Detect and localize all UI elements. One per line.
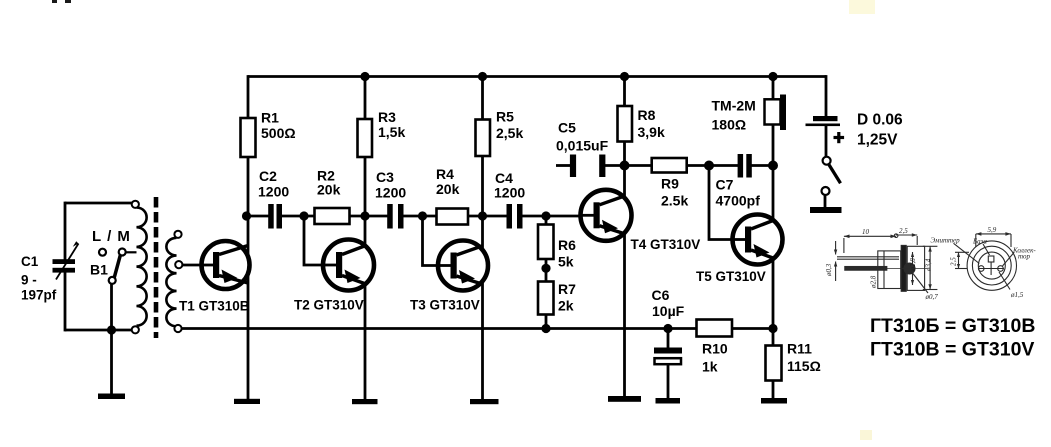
earphone TM-2M — [765, 95, 787, 131]
svg-text:5,9: 5,9 — [988, 226, 997, 234]
pinout leader line to d0,7 — [911, 271, 928, 293]
wire tank left upper — [64, 202, 67, 260]
svg-text:2,5: 2,5 — [950, 257, 958, 266]
svg-text:Эмиттер: Эмиттер — [931, 237, 961, 245]
pinout dim 10 line — [844, 235, 896, 239]
pinout side view center pin circle — [904, 263, 915, 274]
wire T3 base bend — [423, 216, 452, 266]
wire T1 base — [183, 264, 214, 267]
svg-text:R11: R11 — [787, 341, 812, 357]
transformer secondary winding — [166, 238, 176, 327]
wire C5 left stub — [556, 164, 571, 167]
capacitor C7 — [738, 154, 752, 178]
node dot C6 bus — [663, 324, 672, 333]
transformer core — [154, 197, 159, 338]
node dot switch bus — [107, 325, 116, 334]
stray mark top-left 1 — [52, 0, 57, 3]
svg-text:115Ω: 115Ω — [787, 358, 821, 374]
transistor T2 — [323, 240, 374, 291]
transformer primary top terminal — [132, 201, 139, 208]
svg-text:R9: R9 — [661, 176, 679, 192]
svg-text:ø3,4: ø3,4 — [925, 258, 933, 272]
transformer primary tap terminal — [119, 249, 126, 256]
pinout side view axis line — [886, 268, 927, 270]
svg-text:180Ω: 180Ω — [712, 117, 747, 133]
wire tank left lower — [64, 272, 67, 331]
pinout side view thin lead — [837, 257, 899, 259]
pinout front view pin cross lines — [978, 262, 1004, 275]
pinout front view base key square — [988, 256, 994, 262]
wire VL1 to C2 — [248, 215, 269, 218]
pinout side view body inner line — [883, 251, 885, 289]
node dot C2 right / T2 base — [299, 211, 308, 220]
svg-text:1200: 1200 — [258, 184, 289, 200]
svg-text:R6: R6 — [558, 237, 576, 253]
node dot R2-R3 — [360, 211, 369, 220]
transformer secondary bottom terminal — [174, 325, 181, 332]
transistor T3 — [438, 241, 488, 291]
resistor R3 — [358, 119, 373, 157]
resistor R11 — [766, 346, 782, 381]
ground C6 — [656, 398, 681, 404]
pinout dim 2,5 line — [894, 233, 917, 237]
resistor R2 — [315, 208, 350, 224]
node dot C4 right / R6 top — [541, 211, 550, 220]
ground power switch — [810, 207, 842, 213]
wire stage line VL2 (R3/T2 column) — [364, 77, 367, 400]
svg-text:L / M: L / M — [92, 228, 130, 245]
node dot R7 bottom bus — [541, 324, 550, 333]
pinout front view outer circle — [967, 241, 1016, 290]
svg-text:T5 GT310V: T5 GT310V — [696, 269, 766, 284]
node dot R6-R7 — [541, 264, 550, 273]
svg-text:C1: C1 — [21, 254, 39, 269]
switch B1 pivot contact — [109, 277, 116, 284]
svg-text:T4 GT310V: T4 GT310V — [631, 237, 701, 252]
ground T1 — [234, 399, 260, 404]
svg-text:1200: 1200 — [494, 185, 525, 201]
transformer primary bottom terminal — [132, 326, 139, 333]
node dot rail-R8 — [620, 72, 629, 81]
pinout dim d2,8 inner line — [911, 252, 914, 285]
svg-text:4700pf: 4700pf — [716, 193, 761, 209]
wire emitter bus y=328.5 — [182, 327, 774, 330]
transistor T4 — [580, 190, 632, 241]
node dot rail-R3 — [360, 72, 369, 81]
svg-text:C3: C3 — [376, 169, 394, 185]
svg-text:T1 GT310B: T1 GT310B — [179, 299, 250, 314]
wire C5 to R9 — [605, 164, 652, 167]
svg-text:2k: 2k — [558, 298, 574, 314]
wire primary tap stub — [126, 251, 137, 253]
pinout side view body cylinder — [878, 251, 901, 289]
ground T3 — [470, 399, 499, 404]
capacitor C4 — [507, 204, 523, 229]
svg-text:T2 GT310V: T2 GT310V — [294, 298, 364, 313]
wire top supply rail — [248, 75, 826, 78]
resistor R5 — [476, 120, 491, 157]
wire tank loop top — [65, 202, 132, 205]
node dot C7 right — [768, 161, 778, 171]
capacitor C3 — [387, 204, 403, 229]
svg-text:500Ω: 500Ω — [261, 125, 296, 141]
svg-text:ø1,5: ø1,5 — [1010, 291, 1024, 299]
pinout front view emitter pin — [978, 266, 984, 272]
pinout dim d3,4 line — [923, 246, 938, 289]
resistor R10 — [697, 320, 733, 337]
svg-text:ø0,7: ø0,7 — [925, 293, 939, 301]
svg-text:R10: R10 — [702, 341, 728, 357]
pinout dim 5,9 line — [976, 232, 1011, 247]
pinout leader d1,5 — [999, 272, 1010, 290]
ground T2 — [352, 399, 378, 404]
switch B1 lever — [114, 255, 120, 278]
svg-text:20k: 20k — [317, 182, 341, 198]
svg-text:D 0.06: D 0.06 — [857, 112, 903, 129]
wire C2 to R2 — [282, 215, 315, 218]
wire R2 to C3 — [350, 215, 388, 218]
svg-text:R5: R5 — [496, 109, 514, 125]
resistor R7 — [538, 282, 554, 315]
wire T5 base bend — [709, 166, 732, 240]
wire tank bottom — [65, 329, 132, 332]
node dot bus right / R11 top — [768, 324, 777, 333]
switch B1 open contact L — [99, 249, 106, 256]
svg-text:T3 GT310V: T3 GT310V — [410, 298, 480, 313]
pinout side view thick lead — [845, 267, 887, 271]
pinout leader emitter — [954, 243, 980, 263]
power switch lever — [829, 165, 841, 184]
ground tank — [98, 394, 125, 400]
wire stage line VL5 (TM/T5/R11 column) — [772, 77, 775, 399]
resistor R6 — [538, 225, 554, 260]
wire switch B1 to bus — [110, 284, 113, 394]
node dot C5/R8/R9 — [620, 161, 630, 171]
capacitor C5 — [570, 155, 606, 178]
svg-text:5k: 5k — [558, 254, 574, 270]
resistor R8 — [618, 106, 633, 142]
svg-text:R4: R4 — [436, 166, 454, 182]
stray mark top-left 2 — [65, 0, 71, 3]
wire R6 R7 column — [545, 216, 548, 329]
svg-text:ГТ310Б = GT310B: ГТ310Б = GT310B — [870, 315, 1035, 337]
wire C3 to R4 — [403, 215, 437, 218]
pinout front view middle circle — [972, 246, 1011, 285]
svg-text:ГТ310В = GT310V: ГТ310В = GT310V — [870, 339, 1034, 361]
transistor T5 — [732, 215, 783, 265]
svg-text:3,9k: 3,9k — [638, 124, 665, 140]
svg-text:2,5k: 2,5k — [496, 125, 523, 141]
svg-text:B1: B1 — [90, 262, 108, 278]
svg-text:2,5: 2,5 — [899, 227, 908, 235]
svg-text:тор: тор — [1018, 253, 1031, 261]
wire C4 to T4 base — [522, 215, 594, 218]
wire R4 to C4 — [468, 215, 507, 218]
pinout dim extension lines — [844, 236, 917, 253]
svg-text:C5: C5 — [558, 120, 576, 136]
label battery plus — [834, 132, 845, 143]
svg-text:1,5k: 1,5k — [378, 124, 405, 140]
svg-text:10µF: 10µF — [652, 303, 685, 319]
pinout dim d0,3 line — [834, 241, 837, 281]
wire T2 base bend — [304, 216, 337, 265]
faint yellow spot bottom — [860, 430, 872, 440]
svg-text:C7: C7 — [716, 177, 734, 193]
wire stage line VL1 (R1/T1 column) — [247, 75, 250, 399]
pinout front view collector pin — [998, 266, 1004, 272]
wire R9 to C7 — [687, 164, 738, 167]
faint yellow spot top — [849, 0, 875, 14]
capacitor C6 electrolytic — [654, 329, 682, 399]
transformer primary winding — [137, 208, 147, 326]
pinout dim 2,5 front — [955, 252, 969, 268]
node dot rail-TM — [768, 72, 777, 81]
transformer secondary top terminal — [174, 231, 181, 238]
svg-text:C6: C6 — [652, 287, 670, 303]
svg-text:R8: R8 — [638, 107, 656, 123]
node dot C2 left — [242, 211, 251, 220]
ground R11 — [761, 398, 787, 404]
capacitor C1 variable — [53, 241, 79, 279]
pinout leader collector — [1003, 253, 1015, 267]
wire stage line VL3 (R5/T3 column) — [481, 77, 484, 400]
battery D-0.06 plate thick — [813, 116, 838, 121]
wire battery to switch — [825, 126, 828, 157]
svg-text:9 -: 9 - — [21, 273, 37, 288]
svg-text:1200: 1200 — [375, 185, 406, 201]
resistor R4 — [437, 209, 469, 225]
svg-text:197pf: 197pf — [21, 288, 57, 303]
node dot R4-R5 — [478, 211, 487, 220]
svg-text:TM-2M: TM-2M — [712, 98, 756, 114]
wire C7 to VL5 — [752, 164, 774, 167]
pinout leader base — [983, 244, 990, 255]
wire battery branch — [825, 75, 828, 117]
battery D-0.06 plate thin — [806, 124, 841, 127]
node dot R9-C7 / T5 base — [704, 161, 714, 171]
svg-text:ø2,8: ø2,8 — [909, 258, 917, 272]
svg-text:10: 10 — [862, 228, 870, 236]
svg-text:1k: 1k — [702, 359, 718, 375]
node dot C3 right / T3 base — [418, 211, 427, 220]
wire switch to ground — [824, 195, 827, 208]
power switch bottom contact — [822, 187, 830, 195]
svg-text:База: База — [972, 238, 987, 246]
svg-text:20k: 20k — [436, 181, 460, 197]
resistor R1 — [241, 118, 256, 157]
svg-text:R1: R1 — [261, 110, 279, 126]
svg-text:ø0,3: ø0,3 — [825, 263, 833, 277]
capacitor C2 — [268, 204, 282, 229]
transistor T1 — [200, 241, 250, 289]
power switch top contact — [823, 157, 831, 165]
svg-text:0,015uF: 0,015uF — [556, 138, 609, 154]
pinout front view inner circle — [978, 252, 1005, 279]
pinout side view flange — [901, 245, 906, 291]
wire stage line VL4 (R8/T4 column) — [623, 77, 626, 397]
svg-text:C2: C2 — [259, 168, 277, 184]
svg-text:ø2,8: ø2,8 — [870, 275, 878, 289]
ground T4 — [608, 396, 641, 402]
svg-text:R7: R7 — [558, 281, 576, 297]
svg-text:2.5k: 2.5k — [661, 193, 688, 209]
transformer secondary middle terminal — [175, 261, 182, 268]
pinout side view cap — [907, 246, 924, 290]
node dot rail-R5 — [478, 72, 487, 81]
resistor R9 — [652, 158, 687, 173]
svg-text:R3: R3 — [378, 109, 396, 125]
svg-text:1,25V: 1,25V — [857, 132, 898, 149]
